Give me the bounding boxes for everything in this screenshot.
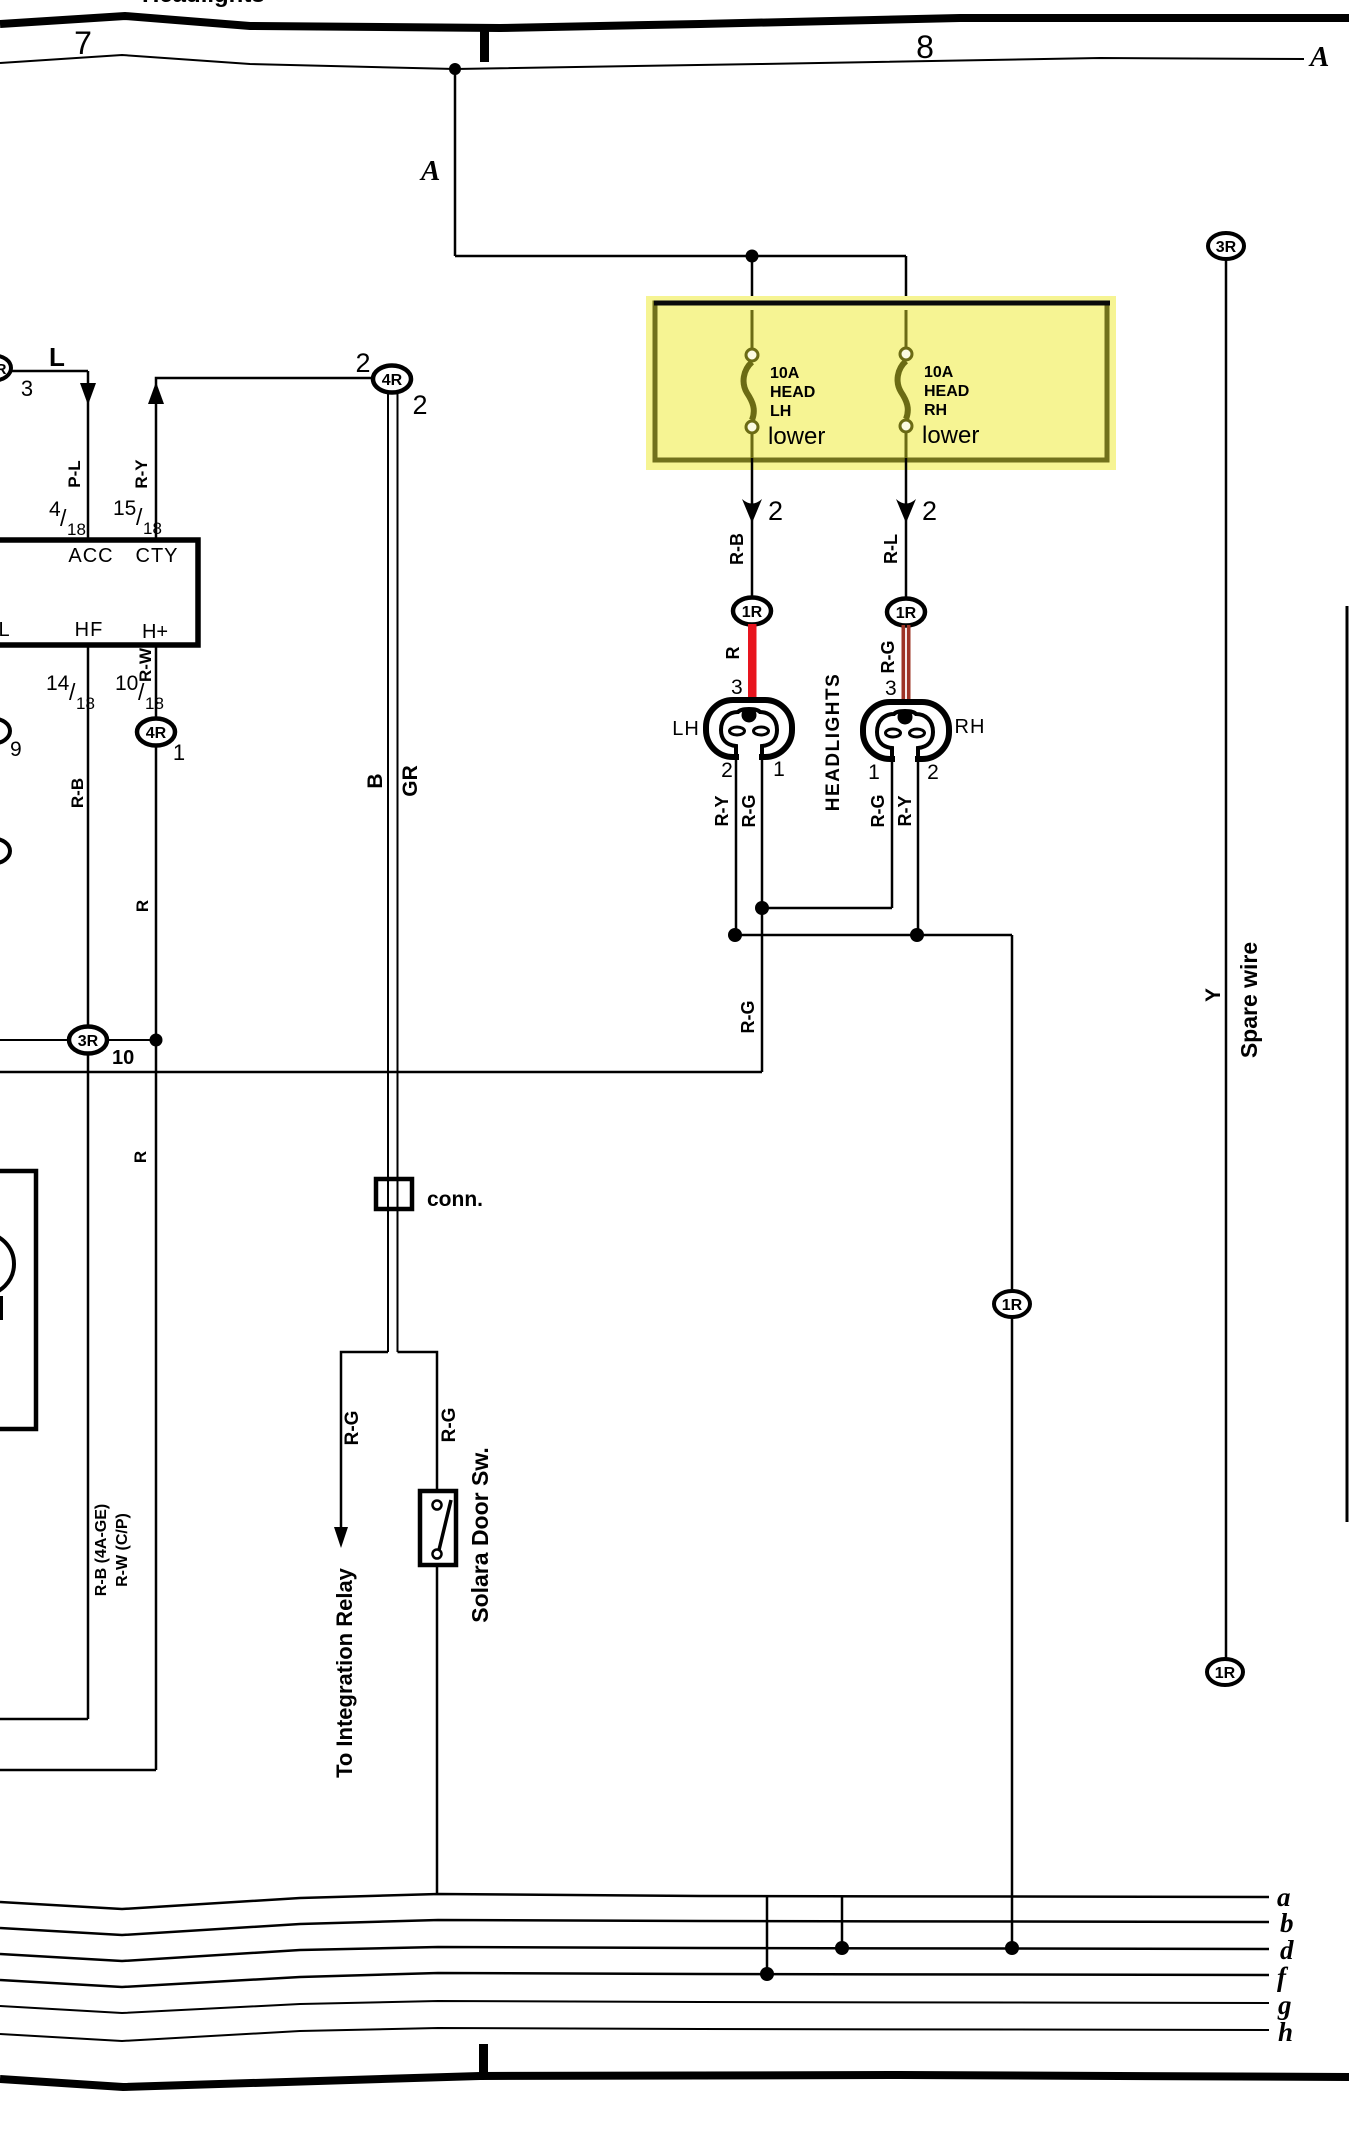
svg-text:2: 2 xyxy=(927,761,939,784)
junction R-G xyxy=(755,901,769,915)
svg-text:L: L xyxy=(0,619,10,641)
svg-text:R: R xyxy=(131,1151,150,1163)
svg-text:GR: GR xyxy=(399,765,422,797)
switch Solara Door Sw xyxy=(420,1491,456,1565)
label R-G xyxy=(878,641,898,674)
svg-text:Y: Y xyxy=(1202,988,1225,1002)
wire: tick on top bus xyxy=(480,26,489,62)
svg-text:RH: RH xyxy=(955,716,986,738)
wire LH pin2 R-Y down xyxy=(735,757,738,935)
svg-text:9: 9 xyxy=(10,738,22,761)
svg-text:lower: lower xyxy=(768,423,825,450)
junction R-Y right xyxy=(910,928,924,942)
svg-text:A: A xyxy=(1308,41,1329,73)
fuse block top black line xyxy=(654,301,1110,306)
svg-text:R-G: R-G xyxy=(738,1001,758,1034)
svg-text:10A: 10A xyxy=(770,365,800,382)
wire HF turn left bottom xyxy=(0,1718,88,1721)
connector 4R top xyxy=(373,366,411,393)
svg-text:HEAD: HEAD xyxy=(924,383,969,400)
wire R-Y from 4R xyxy=(156,378,391,540)
arrow down to integration relay xyxy=(334,1527,348,1548)
svg-text:L: L xyxy=(49,342,65,372)
label R-Y RH xyxy=(895,796,915,827)
label R upper xyxy=(133,900,152,912)
svg-text:1R: 1R xyxy=(742,604,763,621)
dark red wire R-G to RH headlight xyxy=(902,625,911,702)
pin 10/18 xyxy=(115,672,164,713)
wire GR from 4R xyxy=(397,392,399,1352)
svg-text:2: 2 xyxy=(768,496,783,526)
connector 1R RH xyxy=(887,599,925,626)
svg-text:Headlights: Headlights xyxy=(142,0,265,8)
connector 3R spare top xyxy=(1208,233,1244,259)
label R lower xyxy=(131,1151,150,1163)
svg-text:18: 18 xyxy=(76,694,95,713)
svg-text:18: 18 xyxy=(67,520,86,539)
arrow down P-L xyxy=(80,383,96,405)
label R-B wire LH xyxy=(727,533,747,565)
label R xyxy=(723,647,743,660)
wire: thin top line xyxy=(0,55,1304,69)
fuse block highlight xyxy=(646,296,1116,470)
svg-text:14: 14 xyxy=(46,672,70,695)
connector 1R on spare R-Y xyxy=(994,1291,1030,1317)
headlight bulb LH xyxy=(706,700,792,761)
junction spare R-Y on d xyxy=(1005,1941,1019,1955)
svg-text:B: B xyxy=(364,773,387,788)
label R-Y LH xyxy=(712,796,732,827)
svg-text:3: 3 xyxy=(731,676,743,699)
wire branch to integration relay xyxy=(341,1352,388,1540)
wire R-G down from junction xyxy=(761,908,764,1072)
svg-text:R-L: R-L xyxy=(881,534,901,564)
svg-text:R-B: R-B xyxy=(68,778,87,808)
wire door sw down to bus a xyxy=(436,1565,439,1895)
svg-text:Spare wire: Spare wire xyxy=(1236,942,1262,1058)
junction on thin line xyxy=(449,63,461,75)
connector 3R xyxy=(69,1027,107,1054)
label R-B left xyxy=(68,778,87,808)
red wire R to LH headlight xyxy=(748,624,757,702)
svg-text:18: 18 xyxy=(145,694,164,713)
pin 15/18 xyxy=(113,497,162,538)
svg-text:R-Y: R-Y xyxy=(712,796,732,827)
arrow 2 RH xyxy=(896,499,916,523)
svg-text:4R: 4R xyxy=(146,725,167,742)
svg-text:7: 7 xyxy=(74,25,92,61)
svg-text:R: R xyxy=(723,647,743,660)
svg-text:P-L: P-L xyxy=(65,460,84,487)
wire P-L vertical with arrow xyxy=(87,371,90,540)
svg-text:CTY: CTY xyxy=(136,545,179,567)
arrow 2 LH xyxy=(742,499,762,523)
svg-text:R-B: R-B xyxy=(727,533,747,565)
wire LH pin1 R-G down xyxy=(761,757,764,908)
svg-text:h: h xyxy=(1278,2017,1293,2047)
svg-text:1R: 1R xyxy=(1215,1665,1236,1682)
wire to RH fuse xyxy=(905,256,908,357)
connector 4R mid xyxy=(137,719,175,746)
svg-text:A: A xyxy=(419,155,440,187)
junction R-Y left xyxy=(728,928,742,942)
svg-text:8: 8 xyxy=(916,29,934,65)
svg-text:HEADLIGHTS: HEADLIGHTS xyxy=(823,673,844,812)
svg-text:1R: 1R xyxy=(896,605,917,622)
svg-text:10A: 10A xyxy=(924,364,954,381)
svg-text:R-G: R-G xyxy=(342,1411,363,1446)
bottom thick border xyxy=(0,2075,1349,2087)
wire A vertical xyxy=(454,69,457,256)
tick on bottom border xyxy=(479,2044,488,2078)
wire H+ down xyxy=(155,645,158,1770)
svg-text:3R: 3R xyxy=(78,1033,99,1050)
svg-text:HF: HF xyxy=(75,619,104,641)
label R-L wire RH xyxy=(881,534,901,564)
bus wire g xyxy=(0,2001,1269,2013)
bus wire b xyxy=(0,1920,1269,1935)
svg-text:RH: RH xyxy=(924,402,947,419)
svg-text:3R: 3R xyxy=(1216,239,1237,256)
label R-B (4A-GE) xyxy=(93,1504,110,1596)
label R-G RH xyxy=(868,795,888,828)
label R-W (C/P) xyxy=(114,1513,131,1587)
svg-text:1: 1 xyxy=(868,761,880,784)
connector 1R spare bottom xyxy=(1207,1659,1243,1685)
svg-text:R-G: R-G xyxy=(739,795,759,828)
svg-text:2: 2 xyxy=(412,390,427,420)
bus wire a xyxy=(0,1894,1269,1909)
label Solara Door Sw. xyxy=(467,1447,493,1623)
svg-text:R-G: R-G xyxy=(868,795,888,828)
svg-text:/: / xyxy=(136,504,143,530)
svg-text:R-W: R-W xyxy=(136,647,155,682)
connector 1R LH xyxy=(733,598,771,625)
svg-text:g: g xyxy=(1277,1990,1292,2020)
svg-text:3: 3 xyxy=(21,376,33,401)
fuse 10A HEAD RH lower xyxy=(898,310,912,458)
wire 3R to R line xyxy=(107,1039,156,1041)
wire fuse LH output xyxy=(751,458,754,598)
junction on R line xyxy=(150,1034,163,1047)
fuse 10A HEAD LH lower xyxy=(744,310,758,458)
label GR xyxy=(399,765,422,797)
label R-Y xyxy=(132,459,151,489)
bus wire f xyxy=(0,1973,1269,1987)
component box lower left xyxy=(0,1171,36,1429)
svg-text:R-B (4A-GE): R-B (4A-GE) xyxy=(93,1504,110,1596)
svg-text:10: 10 xyxy=(115,672,138,695)
wire HF down xyxy=(87,645,90,1719)
wire spare Y xyxy=(1225,259,1228,1659)
junction at LH fuse feed xyxy=(746,250,759,263)
svg-text:15: 15 xyxy=(113,497,136,520)
svg-text:Solara Door Sw.: Solara Door Sw. xyxy=(467,1447,493,1623)
label R-G integration xyxy=(342,1411,363,1446)
label Spare wire xyxy=(1236,942,1262,1058)
svg-text:R: R xyxy=(133,900,152,912)
label HEADLIGHTS xyxy=(823,673,844,812)
svg-text:R: R xyxy=(0,361,7,378)
pin 4/18 xyxy=(49,498,86,539)
jumper a to d xyxy=(841,1896,844,1948)
wire to 3R xyxy=(0,1039,70,1041)
jumper a to f xyxy=(766,1896,769,1974)
connector oval left (9) xyxy=(0,719,10,744)
wire L horizontal xyxy=(11,370,88,373)
svg-text:18: 18 xyxy=(143,519,162,538)
svg-text:2: 2 xyxy=(721,759,733,782)
wire: top thick bus line xyxy=(0,16,1349,28)
svg-text:R-Y: R-Y xyxy=(895,796,915,827)
svg-text:4R: 4R xyxy=(382,372,403,389)
label P-L xyxy=(65,460,84,487)
svg-text:f: f xyxy=(1277,1962,1289,1992)
svg-text:/: / xyxy=(60,505,67,531)
svg-text:H+: H+ xyxy=(142,621,168,643)
svg-text:/: / xyxy=(69,679,76,705)
svg-text:R-G: R-G xyxy=(439,1408,460,1443)
svg-text:LH: LH xyxy=(672,718,700,740)
page edge line right xyxy=(1346,606,1349,1522)
lamp circle in box xyxy=(0,1233,14,1295)
wire H+ turn left bottom xyxy=(0,1769,156,1772)
svg-text:2: 2 xyxy=(922,496,937,526)
bus wire d xyxy=(0,1947,1269,1961)
label B xyxy=(364,773,387,788)
wire RH pin2 R-Y down xyxy=(917,759,920,935)
svg-text:To Integration Relay: To Integration Relay xyxy=(332,1567,357,1778)
svg-text:conn.: conn. xyxy=(427,1188,483,1211)
wire R-Y join horizontal xyxy=(736,934,1012,937)
label R-W xyxy=(136,647,155,682)
svg-text:R-Y: R-Y xyxy=(132,459,151,489)
svg-text:1: 1 xyxy=(173,740,185,765)
connector oval left top (cut) xyxy=(0,356,11,381)
svg-text:2: 2 xyxy=(355,348,370,378)
svg-text:d: d xyxy=(1280,1935,1294,1965)
wire B from 4R xyxy=(387,392,389,1352)
wire R-G join horizontal xyxy=(762,907,892,910)
pin 14/18 xyxy=(46,672,95,713)
wire branch to door switch xyxy=(398,1352,438,1491)
wire fuse RH output xyxy=(905,458,908,599)
svg-text:1: 1 xyxy=(773,758,785,781)
svg-text:/: / xyxy=(138,679,145,705)
svg-text:b: b xyxy=(1280,1908,1294,1938)
label R-G door sw xyxy=(439,1408,460,1443)
label R-G LH xyxy=(739,795,759,828)
svg-text:R-G: R-G xyxy=(878,641,898,674)
wire to LH fuse xyxy=(751,256,754,358)
label R-G vertical xyxy=(738,1001,758,1034)
wire A horizontal to fuses xyxy=(455,255,906,258)
arrow up R-Y xyxy=(148,382,164,404)
switch box (light control) xyxy=(0,540,198,645)
wire RH pin1 R-G down xyxy=(891,759,894,908)
svg-text:1R: 1R xyxy=(1002,1297,1023,1314)
connector conn. square xyxy=(376,1179,412,1209)
svg-text:3: 3 xyxy=(885,677,897,700)
svg-text:LH: LH xyxy=(770,403,791,420)
wire R-G long horizontal to left xyxy=(0,1071,762,1074)
wire R-Y spare down xyxy=(1011,935,1014,1949)
headlight bulb RH xyxy=(863,702,949,763)
label Y xyxy=(1202,988,1225,1002)
svg-text:R-W (C/P): R-W (C/P) xyxy=(114,1513,131,1587)
svg-text:ACC: ACC xyxy=(68,545,113,567)
svg-text:lower: lower xyxy=(922,422,979,449)
svg-text:HEAD: HEAD xyxy=(770,384,815,401)
connector oval left lower xyxy=(0,839,10,864)
svg-text:10: 10 xyxy=(112,1047,134,1069)
label To Integration Relay xyxy=(332,1567,357,1778)
bus wire h xyxy=(0,2028,1269,2041)
